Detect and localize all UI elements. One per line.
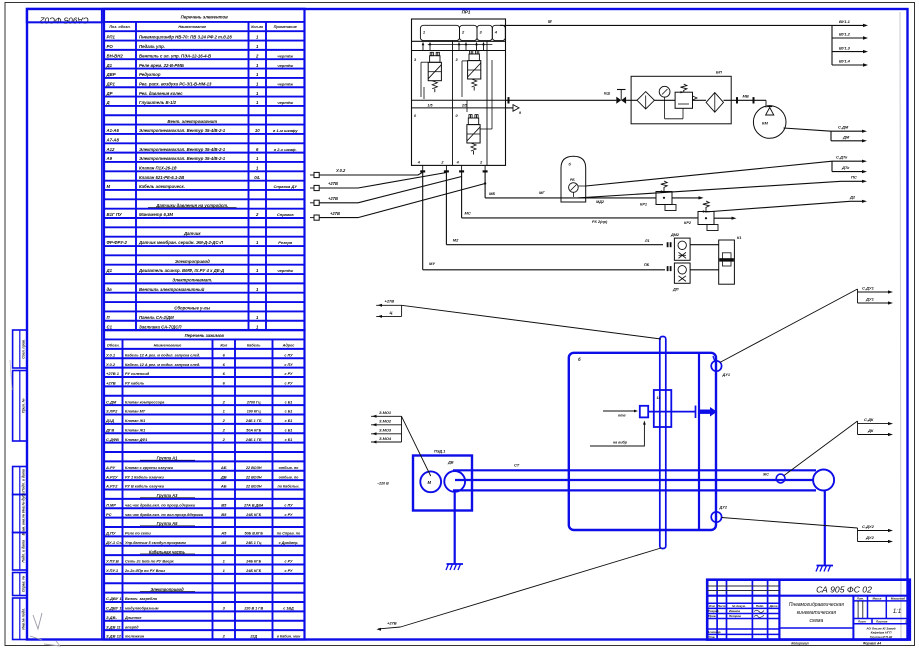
svg-text:Клапан Ж1: Клапан Ж1 <box>125 419 145 423</box>
svg-text:Клапан 521-РЕ-6.1-2В: Клапан 521-РЕ-6.1-2В <box>139 175 184 180</box>
svg-text:З.ДВ-: З.ДВ- <box>106 615 117 620</box>
svg-text:на вибр: на вибр <box>613 441 628 445</box>
svg-text:9: 9 <box>519 111 521 115</box>
svg-text:МГ: МГ <box>539 190 545 195</box>
svg-text:РС: РС <box>106 512 112 517</box>
regulator KR2 <box>698 212 714 225</box>
svg-text:с Б1: с Б1 <box>285 400 293 404</box>
stand inner right wall <box>698 354 700 530</box>
svg-text:ДМ2: ДМ2 <box>670 233 680 237</box>
compressor KM circle <box>753 97 755 103</box>
terminal T3 wire to port3 <box>319 202 358 204</box>
callout DU2 to outputs <box>722 518 858 529</box>
lower terminals table <box>104 330 305 639</box>
upper parts-list table <box>104 9 305 330</box>
svg-text:Копировал: Копировал <box>791 641 808 645</box>
filter diamond <box>637 92 654 109</box>
gauge on regulator <box>659 86 670 97</box>
svg-text:Разраб.: Разраб. <box>708 609 719 613</box>
svg-text:Панель СА-2/ДМ: Панель СА-2/ДМ <box>139 315 174 320</box>
svg-text:+27В: +27В <box>328 196 338 201</box>
svg-text:~220 В: ~220 В <box>377 482 389 486</box>
svg-text:Л.МР: Л.МР <box>105 502 116 507</box>
document name cell <box>779 627 853 629</box>
svg-text:ДК: ДК <box>867 428 874 433</box>
svg-text:С1: С1 <box>107 324 113 329</box>
svg-text:+27В 1: +27В 1 <box>106 371 120 376</box>
svg-text:с ПУ: с ПУ <box>284 503 293 507</box>
svg-text:Электропневмоклап. Вентур 35-4: Электропневмоклап. Вентур 35-4/В-2-1 <box>139 128 226 133</box>
svg-text:ВУ1.4: ВУ1.4 <box>839 59 851 64</box>
svg-text:Резерв: Резерв <box>278 240 292 245</box>
svg-text:У.ПУ.В: У.ПУ.В <box>106 559 119 564</box>
svg-text:Наименование: Наименование <box>178 25 206 29</box>
input terminals left <box>314 172 319 177</box>
svg-text:РУ кабель: РУ кабель <box>125 382 145 386</box>
svg-text:Подп. и дата: Подп. и дата <box>22 540 26 563</box>
valve block top port cells <box>412 40 506 42</box>
scan fold line <box>900 12 901 638</box>
svg-text:2700 Гц: 2700 Гц <box>246 400 261 404</box>
carriage block K <box>654 390 672 427</box>
svg-text:220 В 1 ГВ: 220 В 1 ГВ <box>243 607 263 611</box>
ground drop from pulley <box>824 491 826 566</box>
faint fold marks <box>33 613 42 629</box>
svg-text:ДУ1: ДУ1 <box>865 296 875 301</box>
arrows in distribution band <box>422 43 424 51</box>
svg-text:С.ДУ2: С.ДУ2 <box>862 524 875 529</box>
thick travel arrow <box>700 410 711 414</box>
check valve DP <box>667 266 669 271</box>
svg-text:М: М <box>428 480 432 485</box>
svg-text:Д1: Д1 <box>106 268 113 273</box>
svg-text:отв: отв <box>618 414 626 418</box>
svg-text:Д: Д <box>106 100 110 105</box>
svg-text:Л1: Л1 <box>644 239 649 243</box>
callout diagonal band bottom to +27V <box>401 548 662 627</box>
svg-text:дв: дв <box>107 287 113 292</box>
svg-text:З.ЛР2: З.ЛР2 <box>106 409 118 414</box>
svg-text:МД2: МД2 <box>596 200 605 204</box>
svg-text:Поз. обозн.: Поз. обозн. <box>109 25 130 29</box>
svg-text:Глушитель В-1/2: Глушитель В-1/2 <box>139 100 177 105</box>
svg-text:ДП: ДП <box>672 288 679 292</box>
svg-text:РП1: РП1 <box>107 35 116 40</box>
callout diagonal to band top <box>402 305 661 339</box>
valve internal wires <box>421 61 428 63</box>
svg-text:А5: А5 <box>220 531 227 536</box>
svg-text:Изм: Изм <box>709 604 716 608</box>
svg-text:В5: В5 <box>221 502 227 507</box>
svg-text:ДВР: ДВР <box>106 72 116 77</box>
valve K1 box <box>690 244 719 246</box>
svg-text:ДМ: ДМ <box>842 134 850 139</box>
svg-text:Н.контр.: Н.контр. <box>708 630 721 634</box>
svg-text:ДВ: ДВ <box>447 461 454 465</box>
svg-text:Лист: Лист <box>857 620 866 624</box>
svg-text:Перечень элементов: Перечень элементов <box>181 15 229 20</box>
svg-text:с Б1: с Б1 <box>285 428 293 432</box>
svg-text:отбыв. по: отбыв. по <box>279 466 299 470</box>
svg-text:С.ДФВ: С.ДФВ <box>106 437 119 442</box>
svg-text:вперёд: вперёд <box>125 625 139 629</box>
svg-text:Согл. пров.: Согл. пров. <box>22 339 26 359</box>
svg-text:Кол: Кол <box>220 343 228 347</box>
svg-text:Реле врем. 22-В-РМБ: Реле врем. 22-В-РМБ <box>139 63 184 68</box>
svg-text:Взам. инв.№ Инв.№ дубл.: Взам. инв.№ Инв.№ дубл. <box>22 492 26 536</box>
svg-text:СТ: СТ <box>514 463 520 468</box>
svg-text:по Справ. по: по Справ. по <box>277 532 301 536</box>
svg-text:А.РУ2: А.РУ2 <box>105 484 118 489</box>
svg-text:кинематическая: кинематическая <box>797 610 837 616</box>
svg-text:с ПУ: с ПУ <box>284 353 293 357</box>
receiver to DTk outputs diagonal <box>586 161 832 186</box>
svg-text:С.ДТк: С.ДТк <box>836 155 848 160</box>
svg-text:Д1Д: Д1Д <box>105 418 114 423</box>
svg-text:50А КГБ: 50А КГБ <box>246 428 261 432</box>
svg-text:РО: РО <box>107 44 114 49</box>
svg-text:Датчик: Датчик <box>183 231 201 236</box>
svg-text:РУ соленоид: РУ соленоид <box>125 372 150 376</box>
svg-text:Подп. и дата: Подп. и дата <box>22 469 26 492</box>
compressor to DM outputs <box>784 128 832 131</box>
svg-text:З.МО2: З.МО2 <box>379 419 392 424</box>
svg-text:Вент. электромагнит: Вент. электромагнит <box>167 119 217 124</box>
regulator box <box>675 92 692 108</box>
pulley circle right <box>813 470 834 491</box>
svg-text:А.Р2У: А.Р2У <box>105 474 118 479</box>
svg-text:модуляобразным: модуляобразным <box>125 607 159 611</box>
svg-text:АБ: АБ <box>220 484 227 489</box>
svg-text:З.ДВ 11: З.ДВ 11 <box>106 624 121 629</box>
svg-text:Иванов: Иванов <box>729 609 740 613</box>
svg-text:Д.ПУ: Д.ПУ <box>105 531 116 536</box>
svg-text:Упр.датчик 5 смодул.программ: Упр.датчик 5 смодул.программ <box>125 541 186 545</box>
svg-text:с РУ: с РУ <box>285 382 293 386</box>
svg-text:с Драйвер.: с Драйвер. <box>279 541 299 545</box>
callout +27V Ts upper-left <box>376 304 401 306</box>
svg-text:час.час драйв.вкл. по вкл.прог: час.час драйв.вкл. по вкл.прогр.ддержки <box>125 513 204 517</box>
svg-text:МВ: МВ <box>743 94 749 99</box>
svg-text:ВУ1.2: ВУ1.2 <box>839 32 851 37</box>
svg-text:М: М <box>107 184 111 189</box>
svg-text:Справ. №: Справ. № <box>22 576 26 592</box>
svg-text:А12: А12 <box>106 147 115 152</box>
svg-text:Группа НГП-92: Группа НГП-92 <box>870 635 893 639</box>
margin box Подп. и дата <box>13 533 27 571</box>
svg-text:Сборочные у-лы: Сборочные у-лы <box>174 306 210 311</box>
lubricator diamond <box>706 93 723 113</box>
svg-text:Электропневмоклап. Вентур 35-4: Электропневмоклап. Вентур 35-4/В-2-1 <box>139 156 226 161</box>
margin box Взам. инв.№ Инв.№ дубл. <box>13 495 27 533</box>
svg-text:КР2: КР2 <box>684 221 692 225</box>
svg-text:А7-А8: А7-А8 <box>106 137 120 142</box>
svg-text:чертёж: чертёж <box>277 53 294 58</box>
svg-text:Электропневмат.: Электропневмат. <box>172 278 212 283</box>
svg-text:Рег. давления колес: Рег. давления колес <box>139 91 183 96</box>
svg-text:КР1: КР1 <box>640 203 647 207</box>
regulator KR1 <box>656 192 672 205</box>
wire MU from port 4a <box>422 171 424 269</box>
svg-text:А.РУ: А.РУ <box>105 465 116 470</box>
svg-text:ПС: ПС <box>851 175 857 180</box>
svg-text:Кабель электрическ.: Кабель электрическ. <box>139 184 185 189</box>
valve block PR1 outline <box>412 19 506 165</box>
svg-text:ДГВ: ДГВ <box>105 427 114 432</box>
receiver RS <box>561 156 586 202</box>
svg-text:З.МО1: З.МО1 <box>379 410 391 415</box>
svg-text:У.0.2: У.0.2 <box>106 362 116 367</box>
svg-text:БП: БП <box>716 70 722 75</box>
svg-text:24Б КГБ: 24Б КГБ <box>245 569 261 573</box>
svg-text:чертёж: чертёж <box>277 63 294 68</box>
svg-text:Прил. №: Прил. № <box>22 398 26 413</box>
svg-text:Петров: Петров <box>729 614 741 618</box>
svg-text:Д1: Д1 <box>106 63 113 68</box>
inner divider lines <box>452 41 454 165</box>
title block outer <box>707 580 910 640</box>
svg-text:МУ: МУ <box>429 261 435 266</box>
vertical band bar <box>660 337 666 549</box>
svg-text:10: 10 <box>255 128 260 133</box>
stand outer frame rounded <box>569 353 716 530</box>
svg-text:в 1-м шкафу: в 1-м шкафу <box>273 128 298 133</box>
svg-text:С.ДМ: С.ДМ <box>838 125 849 130</box>
svg-text:Справка: Справка <box>277 212 294 217</box>
svg-text:Примечание: Примечание <box>274 25 297 29</box>
svg-text:У.0.2: У.0.2 <box>336 168 346 173</box>
svg-text:Пневмоцилиндр НВ-70: ПВ 3.24 Р: Пневмоцилиндр НВ-70: ПВ 3.24 РФ 2 т.д.28 <box>139 35 232 40</box>
svg-text:А5: А5 <box>220 540 227 545</box>
svg-text:Клапан П1Х-26-1д: Клапан П1Х-26-1д <box>139 166 177 171</box>
svg-text:час.час драйв.вкл. по прогр.сд: час.час драйв.вкл. по прогр.сдержки <box>125 503 196 507</box>
three transmission lines ST <box>453 469 816 471</box>
terminal T2 wire to port2 <box>319 187 358 189</box>
sensor circle DU1 <box>711 361 721 371</box>
svg-text:Кабель 12 А рег. м подкл. запу: Кабель 12 А рег. м подкл. запуска след. <box>125 353 200 357</box>
margin box Подп. и дата <box>13 467 27 495</box>
svg-text:ПБ: ПБ <box>644 263 650 267</box>
pressure channel double line <box>412 99 506 101</box>
svg-text:50Б В.КГБ: 50Б В.КГБ <box>244 532 263 536</box>
svg-text:Заглушка СА-7/ДСП: Заглушка СА-7/ДСП <box>139 324 182 329</box>
svg-text:МБ: МБ <box>489 191 495 196</box>
svg-text:ДУ2: ДУ2 <box>719 506 728 510</box>
air preparation unit BP <box>631 76 731 124</box>
svg-text:ДУ2: ДУ2 <box>865 535 875 540</box>
svg-text:Рег. расх. воздуха РС-3/1-В-НМ: Рег. расх. воздуха РС-3/1-В-НМ-13 <box>139 81 212 86</box>
sensor circle DU2 <box>711 512 721 522</box>
feed rod <box>648 411 695 413</box>
svg-text:с ПУ: с ПУ <box>284 363 293 367</box>
svg-text:Вентиль электромагнитный: Вентиль электромагнитный <box>139 287 205 292</box>
svg-text:чертёж: чертёж <box>277 268 294 273</box>
svg-text:ДУ-1 Съ: ДУ-1 Съ <box>105 540 122 545</box>
svg-text:Редуктор: Редуктор <box>139 72 161 77</box>
svg-text:ДР1: ДР1 <box>106 81 116 86</box>
svg-text:чертёж: чертёж <box>277 81 294 86</box>
margin box Инв.№ подл. <box>13 598 27 640</box>
svg-text:+27В: +27В <box>106 381 116 386</box>
svg-text:22 ВОЗН: 22 ВОЗН <box>245 485 262 489</box>
svg-text:РУ В кабель озвучки: РУ В кабель озвучки <box>125 485 165 489</box>
ground symbol right <box>817 565 834 567</box>
svg-text:Формат А4: Формат А4 <box>863 641 881 645</box>
svg-text:А9: А9 <box>106 156 113 161</box>
ground symbol left <box>447 563 464 565</box>
svg-text:С.ДВУ 1.: С.ДВУ 1. <box>106 596 123 601</box>
svg-text:М2: М2 <box>453 238 459 243</box>
svg-text:Манометр 6,3М: Манометр 6,3М <box>139 212 173 217</box>
svg-text:Ц: Ц <box>390 310 393 315</box>
svg-text:14: 14 <box>657 396 661 400</box>
exhaust silencer <box>506 107 514 109</box>
svg-text:чертёж: чертёж <box>277 100 294 105</box>
svg-text:Справка ДУ: Справка ДУ <box>274 184 298 189</box>
callout otv <box>603 410 635 412</box>
svg-text:27А В.ДВА: 27А В.ДВА <box>243 503 264 507</box>
svg-text:№ докум.: № докум. <box>732 604 746 608</box>
svg-text:+27В: +27В <box>385 299 395 304</box>
svg-text:с Б1: с Б1 <box>285 410 293 414</box>
callout stack Z.MO <box>371 415 402 417</box>
svg-text:б: б <box>578 357 581 362</box>
svg-text:СА905 ФС02: СА905 ФС02 <box>40 16 89 25</box>
svg-text:ВУ1.3: ВУ1.3 <box>839 45 851 50</box>
svg-text:в 2-х шкаф.: в 2-х шкаф. <box>274 147 297 152</box>
svg-text:Электропневмоклап. Вентур 35-4: Электропневмоклап. Вентур 35-4/В-2-1 <box>139 147 226 152</box>
svg-text:Датчик мембран. серийн. ЭМ-Д: Датчик мембран. серийн. ЭМ-Д-2-ДС-Л <box>138 240 224 245</box>
line MV from block to shut-off valve <box>506 99 617 101</box>
svg-text:ПР1: ПР1 <box>462 10 471 15</box>
svg-text:АБ: АБ <box>220 465 227 470</box>
svg-text:Длинное: Длинное <box>124 616 141 620</box>
svg-text:С,ДВУ 1: С,ДВУ 1 <box>106 606 122 611</box>
svg-text:Двигатель асинхр. ВМФ, IX.РУ 4: Двигатель асинхр. ВМФ, IX.РУ 4 х ДЕ-Д <box>138 268 224 273</box>
gauge RB inside receiver <box>569 183 579 193</box>
svg-text:С.ДМ: С.ДМ <box>106 399 117 404</box>
svg-text:Перечень зажимов: Перечень зажимов <box>185 333 225 338</box>
svg-text:Листов: Листов <box>875 620 888 624</box>
svg-text:по Кабельн.: по Кабельн. <box>278 485 300 489</box>
check valve DM2 <box>667 242 669 247</box>
terminal T1 wire to port1 <box>319 174 418 176</box>
solenoid valve V2 <box>469 54 479 61</box>
svg-text:ВУ1.1: ВУ1.1 <box>839 19 851 24</box>
svg-text:Кабель: Кабель <box>247 343 261 347</box>
svg-text:ДВ: ДВ <box>220 474 227 479</box>
svg-text:Подп.: Подп. <box>756 604 764 608</box>
svg-text:с РУ: с РУ <box>285 569 293 573</box>
svg-text:22Д: 22Д <box>249 635 257 639</box>
svg-text:Наименование: Наименование <box>154 343 182 347</box>
solenoid valve V1 <box>430 56 440 63</box>
ground drop from DV <box>454 492 456 564</box>
svg-text:1:1: 1:1 <box>893 609 901 615</box>
svg-text:С.ДУ1: С.ДУ1 <box>862 285 875 290</box>
signature squiggles <box>754 610 764 612</box>
svg-text:МС: МС <box>465 211 471 216</box>
rotated designation stamp <box>27 9 102 22</box>
svg-text:24Б 1 ГБ: 24Б 1 ГБ <box>245 419 262 423</box>
motor box PED1 <box>413 456 472 511</box>
terminal T4 wire to port4 <box>319 217 358 219</box>
svg-text:Клапан МТ: Клапан МТ <box>125 410 146 414</box>
svg-text:СА 905 ФС 02: СА 905 ФС 02 <box>816 584 872 594</box>
svg-text:Лит.: Лит. <box>856 597 864 601</box>
svg-text:Лист: Лист <box>717 604 726 608</box>
svg-text:2с.2с.дПр по РУ Вниз: 2с.2с.дПр по РУ Вниз <box>124 569 165 573</box>
small roller ZhS <box>776 474 785 483</box>
svg-text:с РУ: с РУ <box>285 560 293 564</box>
lit massa masshtab cells <box>852 596 854 640</box>
svg-text:Утв.: Утв. <box>708 635 715 639</box>
svg-text:с Б1: с Б1 <box>285 419 293 423</box>
svg-text:В1Г ПУ: В1Г ПУ <box>107 212 123 217</box>
svg-text:С.ДК: С.ДК <box>864 417 874 422</box>
margin box Справ. № <box>13 573 27 596</box>
margin box Согл. пров. <box>13 330 27 368</box>
svg-text:ДР: ДР <box>106 91 113 96</box>
svg-text:схема: схема <box>810 618 824 624</box>
svg-text:З.ДВ 12: З.ДВ 12 <box>106 634 122 639</box>
svg-text:с 1ВД: с 1ВД <box>283 607 294 611</box>
svg-text:+27В: +27В <box>387 621 397 626</box>
svg-text:Масса: Масса <box>872 597 881 601</box>
svg-text:ДУ1: ДУ1 <box>722 373 730 377</box>
svg-text:РБ: РБ <box>570 178 575 182</box>
svg-text:Реле по сети: Реле по сети <box>125 532 151 536</box>
svg-text:У.ПУ.1: У.ПУ.1 <box>106 568 119 573</box>
svg-text:тележкин: тележкин <box>125 635 145 639</box>
output bus VU1 <box>831 25 833 65</box>
svg-text:ЖС: ЖС <box>762 473 769 477</box>
svg-text:Вентиль с эл. упр. ПЭА-12-16-4: Вентиль с эл. упр. ПЭА-12-16-4-В <box>139 53 211 58</box>
svg-text:Электропривод: Электропривод <box>175 259 210 264</box>
svg-text:В5: В5 <box>221 512 227 517</box>
list row <box>853 618 909 620</box>
svg-text:Клапан компрессора: Клапан компрессора <box>125 400 164 404</box>
drive circle DV <box>444 471 465 492</box>
svg-text:100 КГц: 100 КГц <box>247 410 262 414</box>
svg-text:Д2: Д2 <box>849 195 856 200</box>
margin box Прил. № <box>13 371 27 442</box>
motor circle M <box>420 471 441 492</box>
svg-text:Клапан ДФ1: Клапан ДФ1 <box>125 438 147 442</box>
svg-text:ВН-ВН2: ВН-ВН2 <box>107 53 124 58</box>
svg-text:+27В: +27В <box>328 181 338 186</box>
svg-text:в Кабин. мин: в Кабин. мин <box>277 635 301 639</box>
svg-text:Клапан Ж1: Клапан Ж1 <box>125 428 145 432</box>
solenoid valve V3 <box>468 118 478 125</box>
svg-text:Пров.: Пров. <box>708 614 716 618</box>
svg-text:М: М <box>548 19 552 24</box>
callout diagonal to motor <box>402 416 431 476</box>
svg-text:РУ 1 Кабель озвучки: РУ 1 Кабель озвучки <box>125 475 164 479</box>
svg-text:Обозн.: Обозн. <box>107 343 120 347</box>
svg-text:24Б 1 Гц: 24Б 1 Гц <box>245 541 262 545</box>
svg-text:Масштаб: Масштаб <box>891 597 905 601</box>
svg-text:ФР-ФРУ-2: ФР-ФРУ-2 <box>107 240 128 245</box>
svg-text:КШ: КШ <box>604 92 610 96</box>
svg-text:Включ. загребла: Включ. загребла <box>125 597 157 601</box>
svg-text:Адрес: Адрес <box>282 343 296 347</box>
svg-text:+27В: +27В <box>330 211 340 216</box>
title block left grid <box>716 580 718 640</box>
svg-text:ДТк: ДТк <box>841 165 850 170</box>
svg-text:Кабель 12 А рег. м подкл. запу: Кабель 12 А рег. м подкл. запуска след. <box>125 363 200 367</box>
callout DU1 to outputs <box>720 289 858 363</box>
